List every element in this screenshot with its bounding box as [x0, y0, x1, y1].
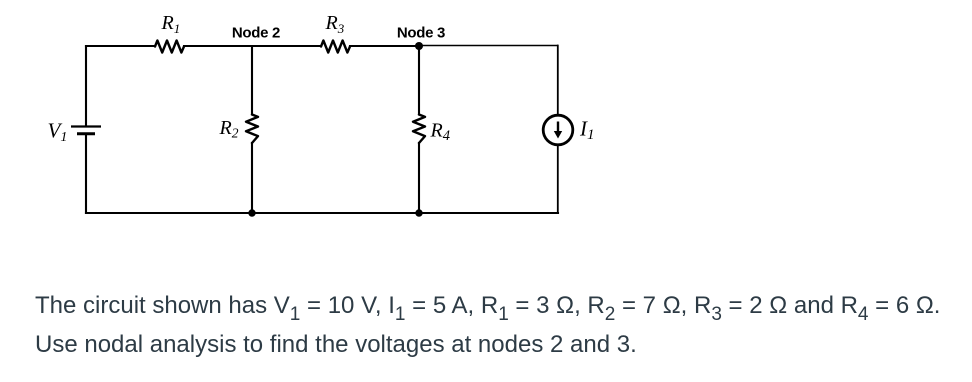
svg-text:I1: I1	[579, 117, 595, 144]
svg-text:R3: R3	[325, 12, 345, 36]
svg-text:Node 3: Node 3	[397, 25, 445, 42]
svg-text:R1: R1	[161, 12, 181, 36]
svg-text:R2: R2	[219, 117, 239, 140]
svg-text:V1: V1	[48, 119, 68, 145]
svg-text:Node 2: Node 2	[232, 25, 280, 42]
svg-text:R4: R4	[430, 120, 450, 145]
